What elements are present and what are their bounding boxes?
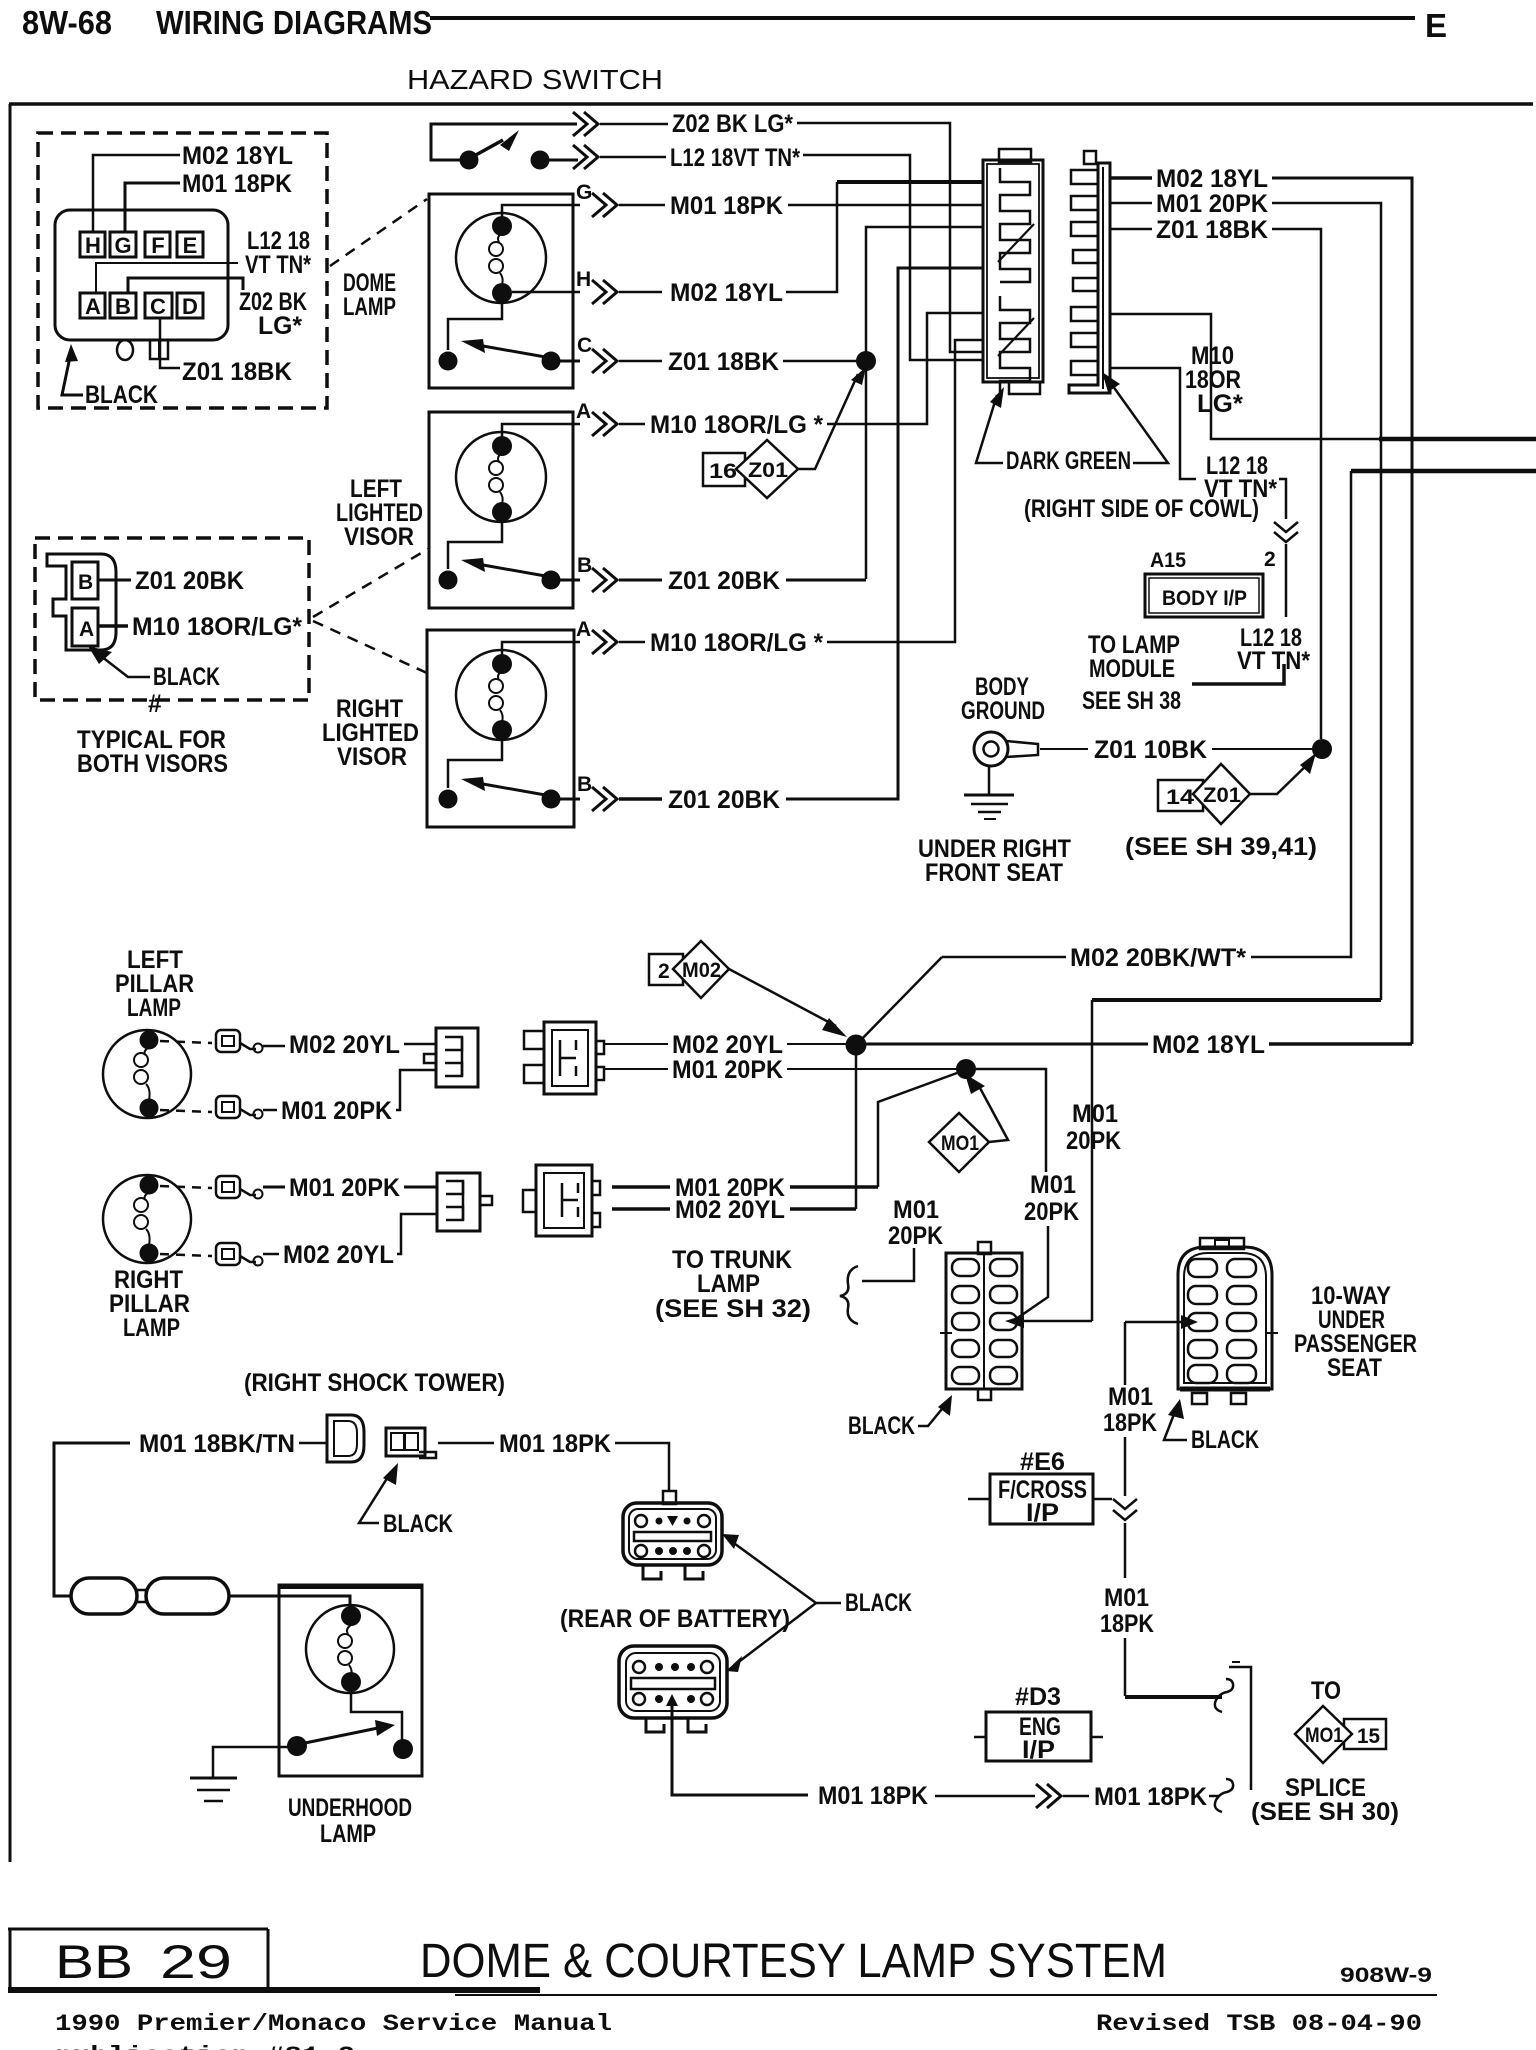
right visor switch contact left [439, 790, 458, 809]
wire M02 18YL row [619, 291, 662, 294]
svg-text:16: 16 [709, 460, 737, 483]
svg-text:Z01 18BK: Z01 18BK [1156, 216, 1268, 244]
wire M01 branch riser from row2 [878, 1073, 957, 1187]
wire M02 row to right [866, 1043, 1148, 1046]
svg-text:BODY I/P: BODY I/P [1162, 587, 1247, 610]
svg-text:D: D [182, 294, 198, 319]
wire M01 18PK down to battery connector [615, 1443, 669, 1492]
chevron L12 row [573, 145, 598, 169]
wire M01 20PK row2 [612, 1185, 670, 1189]
junction node Z01 10BK [1312, 739, 1332, 759]
svg-text:2: 2 [1264, 548, 1276, 571]
svg-text:BLACK: BLACK [848, 1412, 915, 1440]
svg-text:H: H [576, 268, 591, 291]
svg-text:BLACK: BLACK [1191, 1426, 1259, 1454]
splice symbol 14 Z01 [1158, 753, 1316, 824]
wire L12 drop to body I/P [1279, 479, 1286, 519]
right visor bulb [456, 650, 546, 740]
svg-text:LAMP: LAMP [320, 1820, 376, 1848]
ground symbol (body ground) [964, 766, 1014, 819]
svg-text:Z01 20BK: Z01 20BK [135, 567, 244, 595]
wire M01 20PK main feed elbow [1092, 998, 1381, 1002]
svg-text:M01: M01 [1072, 1100, 1118, 1128]
3-way pigtail connector (right pillar) [437, 1173, 492, 1231]
cowl connector right [1069, 151, 1110, 393]
terminal (M01 20PK right pillar) [216, 1176, 263, 1199]
pin A (visor connector) [72, 608, 98, 646]
wire pin A to L12 18 VT TN* [96, 263, 238, 293]
cowl connector left (DARK GREEN) [983, 149, 1043, 395]
BLACK label with arrow (2-way connector) [88, 646, 220, 691]
wire Z01 20BK row2 to cowl connector [786, 268, 983, 799]
svg-text:LAMP: LAMP [127, 994, 181, 1022]
label L12 18 VT TN* [245, 227, 311, 279]
connector body (8-way, BLACK) [55, 210, 228, 340]
hazard switch arm [474, 140, 503, 156]
svg-text:BLACK: BLACK [153, 663, 220, 691]
2-way connector body [47, 554, 116, 650]
chevron A row [592, 412, 617, 436]
left pillar lamp bulb [103, 1030, 191, 1118]
dashed lead bottom (right pillar) [160, 1254, 212, 1256]
ground symbol (underhood) [190, 1778, 237, 1801]
underhood switch arm [305, 1728, 378, 1743]
hazard switch feed bracket wire [431, 124, 577, 160]
dome lamp bulb [456, 213, 546, 303]
hazard switch assembly [431, 124, 578, 170]
label 10-WAY UNDER PASSENGER SEAT [1294, 1282, 1417, 1382]
svg-text:BB: BB [55, 1935, 133, 1988]
wire Z01 20BK row2 [619, 797, 662, 801]
squiggle connector top [1215, 1679, 1233, 1712]
svg-text:M01: M01 [1108, 1383, 1153, 1411]
svg-text:L12 18VT TN*: L12 18VT TN* [670, 144, 800, 172]
svg-text:8W-68: 8W-68 [22, 4, 112, 41]
wire M01 20PK jog into pigtail [396, 1070, 436, 1110]
svg-text:VISOR: VISOR [344, 523, 414, 551]
svg-text:Z02 BK LG*: Z02 BK LG* [672, 110, 793, 138]
chevron A2 row [592, 630, 617, 654]
wire M01 18PK to cowl connector [788, 204, 983, 207]
wire trunk lamp branch [862, 1248, 914, 1281]
wire cowl pin5 to L12 label [1110, 368, 1196, 479]
svg-text:A: A [79, 618, 94, 641]
svg-text:18PK: 18PK [1100, 1610, 1154, 1638]
svg-text:M02 20YL: M02 20YL [675, 1196, 785, 1224]
svg-text:LAMP: LAMP [697, 1270, 760, 1298]
svg-text:(SEE SH 32): (SEE SH 32) [655, 1295, 811, 1323]
chevron C row [592, 349, 617, 373]
left visor switch arm [483, 565, 551, 577]
label M01 20PK (drop b) [1024, 1171, 1079, 1226]
fuse link [137, 1590, 146, 1602]
svg-text:H: H [85, 233, 101, 258]
wire L12 to cowl connector [803, 155, 983, 360]
svg-text:1990 Premier/Monaco Service Ma: 1990 Premier/Monaco Service Manual [55, 2011, 612, 2037]
underhood switch contact left [287, 1736, 307, 1756]
wire pin H to M02 18YL [93, 155, 180, 232]
pin A [80, 293, 105, 318]
dashed leader to dome lamp [330, 199, 427, 266]
junction node Z01 [856, 351, 876, 371]
svg-text:B: B [577, 554, 592, 577]
svg-text:C: C [150, 294, 166, 319]
wire M02 18YL to riser [1269, 1042, 1412, 1046]
left visor filament [498, 453, 502, 462]
svg-text:BOTH VISORS: BOTH VISORS [77, 750, 228, 778]
left visor bulb [456, 432, 546, 522]
svg-text:BLACK: BLACK [845, 1589, 912, 1617]
label UNDERHOOD LAMP [288, 1794, 412, 1848]
underhood filament [347, 1625, 351, 1634]
BLACK label with arrow (8-way connector) [62, 344, 158, 409]
break symbol (f/cross) [1113, 1499, 1137, 1520]
wire Z01 18BK to junction [783, 360, 857, 363]
chevron bottom row [1036, 1784, 1061, 1808]
terminal (M02 20YL right pillar) [216, 1243, 263, 1266]
underhood feed fuse 2 [146, 1578, 229, 1614]
right visor switch arm [483, 784, 551, 796]
wire M01 18PK row [619, 204, 665, 207]
svg-text:29: 29 [160, 1935, 232, 1988]
svg-text:WIRING DIAGRAMS: WIRING DIAGRAMS [156, 4, 432, 41]
wire from battery connector 2 [666, 1694, 678, 1706]
wire M01 18BK/TN row [54, 1443, 130, 1596]
svg-text:M01 20PK: M01 20PK [672, 1056, 783, 1084]
page header title [22, 4, 1447, 44]
label M01 20PK (trunk branch a) [888, 1196, 943, 1250]
connector keyway oval [117, 340, 133, 360]
label DOME LAMP [343, 269, 396, 321]
svg-text:VISOR: VISOR [337, 743, 407, 771]
wire cowl pin1 M02 18YL [1110, 176, 1152, 180]
terminal (M01 20PK left pillar) [216, 1096, 263, 1119]
label M01 18PK (lower drop) [1100, 1584, 1154, 1638]
wire Z01 18BK row [619, 360, 662, 363]
svg-text:M10 18OR/LG *: M10 18OR/LG * [650, 411, 823, 439]
label M10 18OR LG* (right) [1185, 342, 1243, 418]
wire cowl pin4 M10 to right sheet edge [1110, 314, 1381, 439]
svg-text:M02 18YL: M02 18YL [1152, 1031, 1265, 1059]
svg-text:M01: M01 [893, 1196, 939, 1224]
header rule line [430, 16, 1415, 20]
wire M10 row1 [619, 423, 645, 426]
svg-text:M01: M01 [1104, 1584, 1149, 1612]
svg-text:(SEE SH 39,41): (SEE SH 39,41) [1125, 833, 1317, 861]
svg-text:M01 18PK: M01 18PK [670, 192, 783, 220]
svg-text:#: # [148, 690, 162, 718]
svg-text:M10 18OR/LG *: M10 18OR/LG * [650, 629, 823, 657]
left visor switch contact right [542, 571, 561, 590]
chevron G row [592, 193, 617, 217]
splice symbol 16 Z01 [703, 367, 866, 498]
svg-text:BLACK: BLACK [85, 381, 158, 409]
connector detail dashed box (8-way) [38, 133, 327, 408]
battery connector 2 [619, 1646, 727, 1732]
wire dome lamp pin G row [502, 205, 580, 217]
wire fuse to underhood lamp [229, 1596, 350, 1608]
svg-text:E: E [1425, 7, 1447, 44]
shock tower connector half 2 (BLACK) [386, 1428, 436, 1458]
svg-text:20PK: 20PK [1066, 1127, 1121, 1155]
dome lamp box [429, 194, 573, 388]
hazard switch contact right [531, 151, 550, 170]
label UNDER RIGHT FRONT SEAT [918, 835, 1071, 887]
wire pin A to M10 [98, 624, 128, 628]
wire Z01 20BK row1 [619, 579, 662, 582]
wire cowl pin3 Z01 18BK [1110, 228, 1152, 231]
wire M02 20YL row (left pillar) [603, 1043, 668, 1045]
BLACK label with arrow (shock tower) [359, 1463, 453, 1538]
wire cowl pin2 M01 20PK [1110, 202, 1152, 205]
chevron B row [592, 568, 617, 592]
svg-text:BLACK: BLACK [383, 1510, 453, 1538]
svg-text:M01 20PK: M01 20PK [281, 1097, 392, 1125]
wire M02 20YL row2 [612, 1207, 670, 1211]
svg-text:908W-9: 908W-9 [1340, 1964, 1432, 1987]
junction node M02 [846, 1035, 867, 1056]
svg-text:(SEE SH 30): (SEE SH 30) [1251, 1798, 1399, 1826]
svg-text:Z01 18BK: Z01 18BK [668, 348, 779, 376]
svg-text:M01 18BK/TN: M01 18BK/TN [139, 1430, 295, 1458]
left visor switch wire [448, 522, 502, 569]
dashed lead bottom (left pillar) [160, 1110, 212, 1112]
svg-text:GROUND: GROUND [961, 697, 1045, 725]
svg-text:B: B [577, 773, 592, 796]
label M01 20PK (drop c) [1066, 1100, 1121, 1155]
diagram left border [9, 104, 12, 1862]
underhood switch contact right [393, 1739, 413, 1759]
splice symbol 2 M02 [649, 941, 847, 1037]
svg-text:G: G [576, 181, 592, 204]
svg-text:2: 2 [658, 960, 670, 983]
junction node M01 [956, 1059, 976, 1079]
svg-text:UNDERHOOD: UNDERHOOD [288, 1794, 412, 1822]
svg-text:M02 20YL: M02 20YL [283, 1241, 394, 1269]
svg-text:DOME & COURTESY LAMP SYSTEM: DOME & COURTESY LAMP SYSTEM [420, 1935, 1167, 1988]
pin B [110, 293, 136, 318]
ring terminal body ground [974, 732, 1038, 766]
trunk lamp brace [840, 1266, 858, 1324]
underhood switch wire [351, 1692, 402, 1740]
wire M01 20PK row (left pillar) [603, 1068, 668, 1070]
dashed lead top (left pillar) [160, 1041, 212, 1043]
right visor filament [498, 671, 502, 680]
diagram top border [9, 102, 1533, 106]
wire Z01 10BK [1040, 748, 1088, 750]
3-way pigtail connector (left pillar) [424, 1028, 478, 1087]
wire M02 junction drop [855, 1045, 858, 1209]
wire pin G to M01 18PK [125, 183, 180, 232]
wire into 3-way pigtail [404, 1043, 436, 1046]
wire Z01 20BK row1 to junction riser [786, 579, 866, 582]
svg-text:Revised TSB 08-04-90: Revised TSB 08-04-90 [1096, 2011, 1422, 2037]
wire M02 20BK/WT* row [856, 957, 942, 1045]
underhood lamp bulb [306, 1605, 394, 1693]
svg-text:20PK: 20PK [1024, 1198, 1079, 1226]
label RIGHT LIGHTED VISOR [322, 695, 419, 771]
pin C [145, 293, 172, 318]
left pillar filament [145, 1047, 150, 1055]
wire into pigtail (right pillar top) [404, 1186, 437, 1189]
svg-text:20PK: 20PK [888, 1222, 943, 1250]
svg-text:Z01 10BK: Z01 10BK [1094, 736, 1207, 764]
underhood feed fuse 1 [71, 1578, 137, 1614]
break symbol (cowl drop) [1274, 522, 1298, 542]
wire pin C to Z01 18BK [160, 318, 180, 368]
10-way connector (under passenger seat) [1178, 1238, 1278, 1404]
pin letters [85, 233, 198, 319]
svg-text:E: E [183, 233, 198, 258]
wire Z02 BK LG* to cowl connector [797, 123, 983, 352]
pin D [177, 293, 203, 318]
right visor switch wire [448, 740, 502, 788]
terminal (M02 20YL left pillar) [216, 1030, 263, 1053]
svg-text:#D3: #D3 [1015, 1683, 1061, 1711]
left pillar lamp label [115, 946, 194, 1022]
wire pin B to Z02 BK LG* [128, 278, 243, 293]
svg-text:DARK GREEN: DARK GREEN [1006, 447, 1131, 475]
svg-text:HAZARD SWITCH: HAZARD SWITCH [407, 64, 663, 95]
svg-text:FRONT SEAT: FRONT SEAT [925, 859, 1063, 887]
svg-text:M01 18PK: M01 18PK [818, 1782, 928, 1810]
svg-text:A: A [576, 618, 591, 641]
wire visor pin A row [502, 424, 580, 437]
svg-text:Z01: Z01 [748, 459, 788, 482]
chevron H row [592, 280, 617, 304]
visor connector dashed box (2-way) [35, 538, 309, 700]
svg-text:MO1: MO1 [1305, 1724, 1343, 1747]
F/CROSS I/P box [990, 1474, 1093, 1524]
pin H [80, 232, 105, 257]
dashed leader to left visor [313, 549, 428, 617]
svg-text:B: B [115, 294, 131, 319]
wire pin B to Z01 20BK [98, 579, 131, 582]
wire to M01 18PK [438, 1442, 494, 1445]
svg-text:Z01 20BK: Z01 20BK [668, 567, 780, 595]
wire dome lamp pin H row [512, 291, 580, 294]
label TO TRUNK LAMP (SEE SH 32) [655, 1246, 811, 1323]
svg-text:SEAT: SEAT [1327, 1354, 1382, 1382]
12-way connector (BLACK) [940, 1242, 1022, 1400]
BODY I/P box [1145, 574, 1263, 617]
svg-text:publication #81-2: publication #81-2 [55, 2043, 355, 2050]
label M01 18PK (drop) [1103, 1383, 1157, 1437]
dome lamp filament [498, 233, 502, 242]
svg-text:G: G [114, 233, 131, 258]
right pillar lamp bulb [103, 1175, 191, 1263]
wire Z01 vertical run [866, 227, 983, 579]
svg-text:M02 18YL: M02 18YL [670, 279, 783, 307]
svg-text:15: 15 [1357, 1725, 1380, 1748]
wire M01 18PK into 10-way [1125, 1321, 1190, 1324]
wire M10 row2 [619, 641, 645, 644]
wire L12 row [600, 156, 666, 159]
pin B (visor connector) [72, 562, 98, 599]
label L12 18 VT TN* (lower) [1237, 624, 1310, 675]
dashed leader to right visor [313, 621, 427, 673]
svg-text:18PK: 18PK [1103, 1409, 1157, 1437]
label SPLICE (SEE SH 30) [1251, 1774, 1399, 1826]
wire right visor pin A row [502, 642, 580, 655]
svg-text:M01 18PK: M01 18PK [499, 1430, 611, 1458]
dome switch arm [483, 346, 551, 358]
dome switch contact left [439, 352, 458, 371]
svg-text:LAMP: LAMP [343, 293, 396, 321]
right pillar filament [145, 1192, 150, 1200]
svg-text:MODULE: MODULE [1089, 655, 1175, 683]
svg-text:14: 14 [1166, 786, 1194, 809]
hazard switch contact left [460, 151, 479, 170]
underhood lamp box [279, 1585, 422, 1776]
svg-text:M02 18YL: M02 18YL [1156, 165, 1268, 193]
label Z02 BK LG* [239, 288, 307, 340]
svg-text:(RIGHT SIDE OF COWL): (RIGHT SIDE OF COWL) [1024, 495, 1259, 523]
wire into 12-way connector [1016, 1320, 1092, 1323]
splice symbol MO1 diamond [929, 1074, 1008, 1172]
svg-text:F: F [151, 233, 164, 258]
label TYPICAL FOR BOTH VISORS [77, 726, 228, 778]
mating connector (left pillar) [524, 1022, 604, 1094]
right lighted visor box [427, 630, 574, 827]
left lighted visor box [429, 412, 573, 608]
bottom M01 18PK row [935, 1795, 1035, 1798]
svg-text:TO: TO [1311, 1677, 1341, 1705]
right pillar lamp label [109, 1266, 190, 1342]
svg-text:A15: A15 [1150, 549, 1186, 572]
label LEFT LIGHTED VISOR [336, 475, 423, 551]
svg-text:LG*: LG* [258, 312, 302, 340]
wire M01 18PK to splice bracket [1125, 1695, 1222, 1699]
svg-text:I/P: I/P [1026, 1499, 1059, 1527]
pin F [145, 232, 170, 257]
svg-text:LAMP: LAMP [123, 1314, 180, 1342]
BLACK label with arrows (battery connectors) [722, 1534, 912, 1672]
wire M10 row2 to cowl connector [827, 340, 983, 642]
chevron B2 row [592, 787, 617, 811]
svg-text:M02 20YL: M02 20YL [289, 1031, 400, 1059]
svg-text:M10 18OR/LG*: M10 18OR/LG* [132, 613, 302, 641]
svg-text:M01: M01 [1030, 1171, 1076, 1199]
left visor switch contact left [439, 571, 458, 590]
svg-text:Z01 20BK: Z01 20BK [668, 786, 780, 814]
svg-text:MO1: MO1 [941, 1132, 979, 1155]
label L12 18 VT TN* (cowl) [1204, 452, 1277, 503]
BLACK label with arrow (12-way) [848, 1395, 952, 1440]
dashed lead top (right pillar) [160, 1186, 212, 1188]
DARK GREEN label with arrows [976, 372, 1168, 475]
svg-text:A: A [85, 294, 101, 319]
wire M02 20YL jog into pigtail [397, 1214, 437, 1254]
dome lamp switch wire [448, 303, 502, 350]
svg-text:I/P: I/P [1022, 1736, 1055, 1764]
svg-text:Z01: Z01 [1203, 784, 1241, 807]
svg-text:M02: M02 [682, 959, 721, 982]
svg-text:B: B [78, 571, 93, 594]
wire to ground [213, 1747, 288, 1777]
svg-text:SEE SH 38: SEE SH 38 [1082, 687, 1181, 715]
mating connector (right pillar) [523, 1165, 600, 1236]
BLACK label with arrow (10-way) [1164, 1399, 1259, 1454]
ENG I/P box [986, 1712, 1091, 1761]
svg-text:Z01 18BK: Z01 18BK [182, 358, 292, 386]
svg-text:M02 20BK/WT*: M02 20BK/WT* [1070, 944, 1246, 972]
svg-text:M01 18PK: M01 18PK [182, 170, 292, 198]
svg-text:A: A [576, 400, 591, 423]
shock tower connector half 1 [327, 1415, 364, 1462]
pin E [177, 232, 203, 257]
label BODY GROUND [961, 673, 1045, 725]
